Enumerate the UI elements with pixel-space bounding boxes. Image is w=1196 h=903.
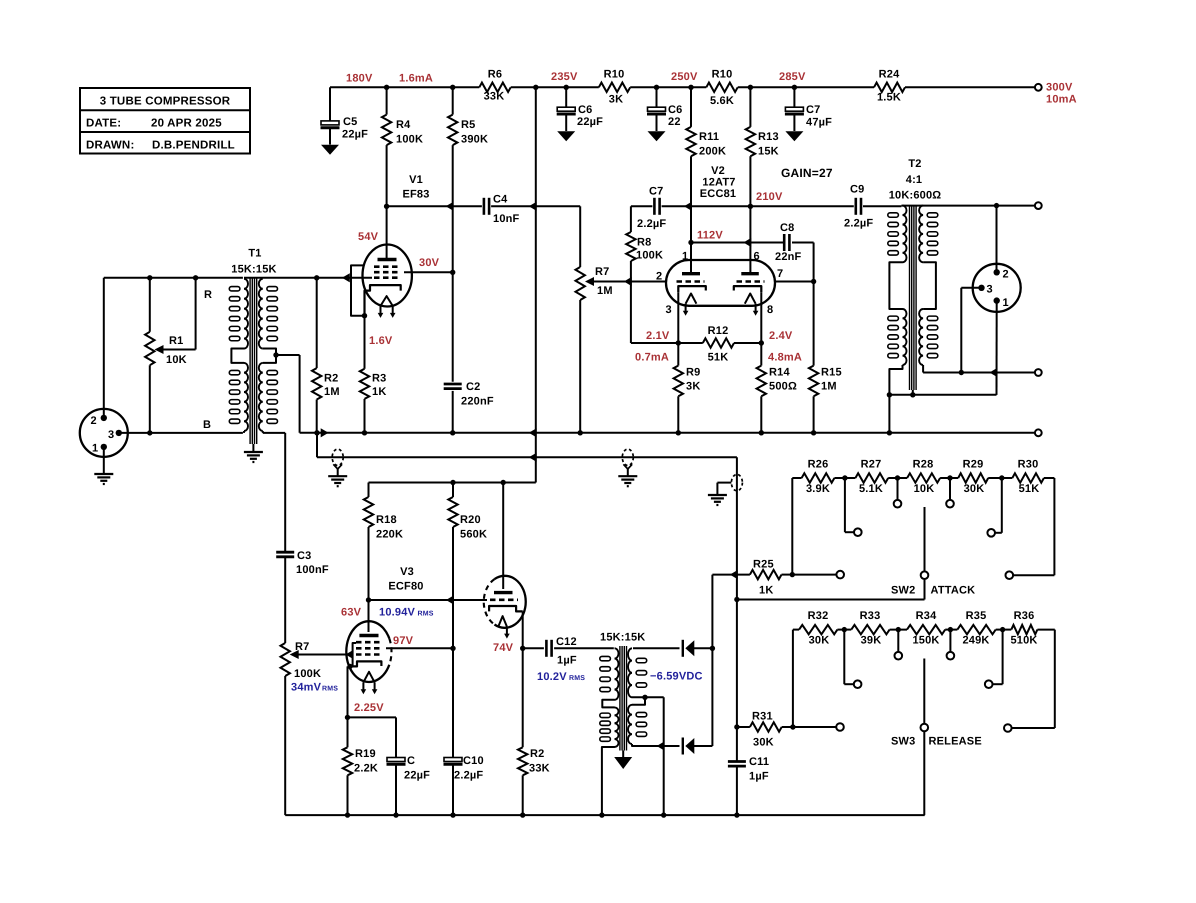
- capacitor C5: [321, 87, 340, 155]
- junction screen-R5: [450, 270, 455, 275]
- crossover tap-D2line: [657, 741, 665, 750]
- svg-text:100nF: 100nF: [296, 564, 329, 576]
- svg-text:R11: R11: [699, 131, 719, 143]
- crossover at 180V drop: [529, 202, 537, 211]
- svg-text:R15: R15: [821, 367, 842, 379]
- resistor R32: [799, 625, 837, 634]
- svg-text:1µF: 1µF: [557, 655, 577, 667]
- label 4.8mA: [768, 352, 802, 364]
- svg-text:R30: R30: [1018, 459, 1039, 471]
- svg-text:300V: 300V: [1046, 82, 1073, 94]
- svg-text:2.2K: 2.2K: [354, 763, 378, 775]
- svg-text:220K: 220K: [376, 529, 403, 541]
- svg-text:7: 7: [777, 268, 783, 280]
- svg-text:C3: C3: [297, 550, 311, 562]
- svg-text:12AT7: 12AT7: [702, 177, 735, 189]
- junction R26-R27: [842, 475, 847, 480]
- svg-text:1K: 1K: [759, 585, 773, 597]
- svg-text:−6.59VDC: −6.59VDC: [650, 671, 703, 683]
- svg-text:1M: 1M: [597, 285, 613, 297]
- crossover at V1 bracket: [342, 273, 350, 282]
- svg-text:3.9K: 3.9K: [806, 483, 830, 495]
- svg-text:47µF: 47µF: [806, 117, 832, 129]
- svg-text:EF83: EF83: [402, 189, 429, 201]
- wire grid V2a: [628, 281, 666, 283]
- svg-text:22: 22: [668, 116, 681, 128]
- wire second bus drop: [736, 457, 738, 599]
- capacitor C7 2.2uF: [654, 198, 659, 215]
- junction R1 wiper top: [193, 275, 198, 280]
- svg-text:R6: R6: [488, 69, 502, 81]
- wire V2 left cathode lead: [677, 292, 679, 343]
- junction bbus-R2b: [520, 812, 525, 817]
- label R2 1M: [324, 373, 340, 399]
- junction bus-C2: [450, 430, 455, 435]
- tube V3a heater: [361, 672, 378, 695]
- label V1 EF83: [402, 174, 429, 201]
- svg-text:R3: R3: [372, 373, 386, 385]
- svg-text:1: 1: [92, 443, 98, 455]
- svg-text:150K: 150K: [912, 635, 939, 647]
- label R33 39K: [860, 610, 882, 647]
- svg-text:10nF: 10nF: [493, 213, 520, 225]
- resistor R30: [1012, 473, 1044, 482]
- junction 210V-pin6: [748, 204, 753, 209]
- junction R34-R35: [948, 627, 953, 632]
- label 300V 10mA: [1046, 82, 1077, 106]
- label SW3 RELEASE: [891, 736, 982, 748]
- label C6 22: [668, 104, 682, 128]
- switch contact SW2-6: [1006, 571, 1014, 579]
- label R14 500ohm: [769, 367, 797, 393]
- junction rail-C6a: [564, 85, 569, 90]
- resistor R2b: [518, 747, 527, 815]
- wire C2 to bus: [452, 391, 454, 433]
- junction drop-SW2line: [734, 597, 739, 602]
- svg-text:T1: T1: [248, 248, 261, 260]
- junction V3a plate: [366, 597, 371, 602]
- wire drop SW2-2: [834, 478, 855, 532]
- svg-text:100K: 100K: [396, 134, 423, 146]
- svg-text:15K: 15K: [758, 146, 779, 158]
- capacitor C7 47uF: [785, 87, 804, 141]
- junction bus-R3: [362, 430, 367, 435]
- label 97V: [393, 635, 414, 647]
- junction pin7-R15: [811, 279, 816, 284]
- svg-text:249K: 249K: [962, 635, 989, 647]
- junction cathode-R19: [345, 715, 350, 720]
- terminal 300V output: [1035, 84, 1042, 91]
- wire 210V plate line: [631, 205, 902, 207]
- svg-text:22µF: 22µF: [404, 770, 430, 782]
- svg-text:1µF: 1µF: [749, 771, 769, 783]
- svg-text:100K: 100K: [636, 250, 663, 262]
- wire V1 anode: [386, 206, 388, 258]
- junction R29-R30: [999, 475, 1004, 480]
- wire 30V screen: [404, 271, 453, 273]
- svg-text:235V: 235V: [551, 71, 578, 83]
- label T3 15K:15K: [600, 632, 645, 644]
- tube V2 right cathode: [734, 286, 762, 292]
- resistor R20: [448, 483, 457, 649]
- svg-text:51K: 51K: [1019, 483, 1040, 495]
- svg-text:560K: 560K: [460, 529, 487, 541]
- wire main ground bus: [317, 432, 1035, 434]
- svg-text:R36: R36: [1014, 610, 1035, 622]
- svg-text:1K: 1K: [372, 386, 386, 398]
- svg-text:2: 2: [91, 415, 97, 427]
- wire V3a g3 bracket: [353, 643, 356, 666]
- label 10.94Vrms: [379, 607, 434, 619]
- tube V3b heater: [498, 616, 509, 639]
- wire pin3 lead: [961, 288, 981, 373]
- svg-text:SW3: SW3: [891, 736, 915, 748]
- junction cathode8: [759, 340, 764, 345]
- capacitor C6b: [647, 87, 666, 141]
- junction bbus-C: [393, 812, 398, 817]
- svg-text:V1: V1: [409, 174, 423, 186]
- label R32 30K: [808, 610, 830, 647]
- resistor R28: [907, 473, 940, 482]
- resistor R5: [448, 87, 457, 272]
- label SW2 ATTACK: [891, 585, 975, 597]
- svg-text:1: 1: [1003, 297, 1009, 309]
- label pin 2: [656, 271, 662, 283]
- label R6 33K: [484, 69, 505, 103]
- label R30 51K: [1018, 459, 1040, 496]
- resistor R34: [907, 625, 945, 634]
- label R15 1M: [821, 367, 842, 393]
- wire bus left segment: [119, 432, 243, 434]
- tube V2 left plate: [682, 272, 700, 275]
- tube V3b cathode: [489, 606, 523, 611]
- svg-text:30K: 30K: [964, 483, 985, 495]
- svg-text:3K: 3K: [686, 381, 700, 393]
- junction bbus-C11: [734, 812, 739, 817]
- resistor R9: [674, 343, 683, 433]
- junction R32-R33: [842, 627, 847, 632]
- label pin 6: [754, 251, 760, 263]
- junction T1 tap: [273, 352, 278, 357]
- label R8 100K: [636, 237, 663, 262]
- junction R31 left: [734, 724, 739, 729]
- wire C12 to T3: [554, 647, 614, 649]
- svg-text:10.94V: 10.94V: [379, 607, 416, 619]
- label R9 3K: [686, 367, 700, 393]
- svg-text:2.1V: 2.1V: [646, 330, 670, 342]
- capacitor C12: [546, 640, 551, 657]
- svg-text:2.2µF: 2.2µF: [454, 770, 483, 782]
- ground tap B: [618, 449, 637, 486]
- junction rail-C7b: [792, 85, 797, 90]
- svg-text:V2: V2: [711, 165, 725, 177]
- svg-text:R7: R7: [295, 641, 309, 653]
- label B: [203, 419, 211, 431]
- wire V3b plate lead: [502, 483, 504, 590]
- junction bbus-C10: [450, 812, 455, 817]
- label R31 30K: [752, 711, 774, 749]
- svg-text:10K: 10K: [166, 354, 187, 366]
- label R2 33K: [529, 748, 550, 775]
- label R28 10K: [913, 459, 935, 496]
- resistor R4: [382, 87, 391, 206]
- wire 2.25V line: [348, 717, 397, 757]
- crossover bus-180Vdrop: [529, 428, 537, 437]
- label pin 7: [777, 268, 783, 280]
- svg-text:30V: 30V: [419, 257, 440, 269]
- label R3 1K: [372, 373, 386, 399]
- junction rail-535: [533, 85, 538, 90]
- label R1 10K: [166, 335, 187, 366]
- junction bus-tap: [314, 428, 328, 437]
- label C7 2.2uF: [637, 186, 666, 231]
- svg-text:2.4V: 2.4V: [769, 330, 793, 342]
- label C7 47uF: [806, 104, 832, 129]
- wire grid line V1: [244, 277, 372, 279]
- transformer T1 core: [250, 278, 257, 444]
- wire pin7 line: [775, 281, 814, 283]
- transformer T3 secondary: [628, 648, 663, 746]
- label R4 100K: [396, 119, 423, 146]
- node 180V label: [346, 73, 373, 85]
- tube V2 right grid: [737, 280, 765, 283]
- svg-text:97V: 97V: [393, 635, 414, 647]
- junction R2 top: [314, 275, 319, 280]
- wire drop SW2-3: [888, 478, 907, 500]
- terminal output top: [1035, 202, 1042, 209]
- connector J1 input XLR: [80, 409, 128, 457]
- junction bbus-T3tap: [661, 812, 666, 817]
- label 30V: [419, 257, 440, 269]
- wire B+ rail: [330, 86, 1035, 88]
- junction T2top-pin2: [994, 203, 999, 208]
- junction bbus-R19: [345, 812, 350, 817]
- crossover at R5: [446, 202, 454, 211]
- resistor R35: [957, 625, 995, 634]
- svg-text:0.7mA: 0.7mA: [635, 352, 669, 364]
- transformer T1 secondary: [259, 279, 278, 433]
- svg-text:30K: 30K: [753, 737, 774, 749]
- svg-text:390K: 390K: [461, 134, 488, 146]
- svg-text:C5: C5: [343, 116, 357, 128]
- svg-text:4.8mA: 4.8mA: [768, 352, 802, 364]
- svg-text:2.2µF: 2.2µF: [844, 218, 873, 230]
- label pin 1: [682, 251, 688, 263]
- svg-text:D.B.PENDRILL: D.B.PENDRILL: [152, 140, 235, 152]
- resistor R10a: [599, 83, 630, 92]
- svg-text:ECC81: ECC81: [700, 188, 736, 200]
- wire R36 end drop: [1012, 630, 1055, 728]
- wire pin1 lead: [996, 301, 998, 395]
- wire drop SW3-5: [993, 630, 1012, 685]
- wire shield line: [889, 375, 996, 395]
- crossover drop-R25: [730, 570, 738, 579]
- svg-text:C2: C2: [466, 381, 480, 393]
- title block frame: [80, 88, 250, 154]
- crossover pin1-secline: [990, 368, 998, 377]
- label 74V: [493, 642, 514, 654]
- svg-text:1M: 1M: [821, 381, 837, 393]
- transformer T2 secondary: [919, 206, 938, 373]
- resistor R11: [686, 87, 695, 206]
- label R: [204, 289, 212, 301]
- wire V3a cathode down: [347, 666, 349, 717]
- switch contact SW3-2: [854, 680, 862, 688]
- capacitor C4: [484, 198, 489, 215]
- label R19 2.2K: [354, 748, 378, 775]
- title text: DATE 20 APR 2025: [86, 118, 222, 130]
- svg-text:R7: R7: [595, 266, 609, 278]
- svg-text:R26: R26: [808, 459, 829, 471]
- transformer T3 primary: [600, 648, 619, 815]
- svg-text:220nF: 220nF: [461, 396, 494, 408]
- svg-text:20 APR 2025: 20 APR 2025: [151, 118, 222, 130]
- junction pin1-112V: [688, 240, 693, 245]
- wire drop SW2-4: [940, 478, 958, 500]
- label R20 560K: [460, 514, 487, 541]
- svg-text:22µF: 22µF: [577, 116, 603, 128]
- svg-text:C7: C7: [649, 186, 663, 198]
- switch contact SW2-3: [894, 500, 902, 508]
- label C3 100nF: [296, 550, 329, 576]
- svg-text:R24: R24: [879, 69, 900, 81]
- junction plate line V3b: [501, 480, 506, 485]
- wire V3a anode lead: [368, 600, 370, 632]
- label pin 8: [767, 304, 773, 316]
- junction cathode3: [676, 340, 681, 345]
- svg-text:1.5K: 1.5K: [877, 92, 901, 104]
- svg-text:C7: C7: [806, 104, 820, 116]
- label R10 3K: [604, 69, 625, 106]
- label 210V: [756, 191, 783, 203]
- wire T2 top line: [901, 205, 1035, 207]
- label R34 150K: [912, 610, 939, 647]
- svg-text:C6: C6: [578, 104, 592, 116]
- junction 97V-C10: [450, 646, 455, 651]
- tube V3a cathode: [348, 661, 382, 666]
- svg-text:R2: R2: [530, 748, 544, 760]
- svg-text:R9: R9: [686, 367, 700, 379]
- wire V2 pin1 lead: [690, 206, 692, 272]
- resistor R10b: [706, 83, 737, 92]
- wire drop SW3-4: [945, 630, 957, 652]
- resistor R14: [757, 343, 766, 433]
- tube V1 grids: [374, 267, 401, 278]
- wire V3b cathode lead: [522, 611, 524, 648]
- wire pin2 lead: [996, 206, 998, 273]
- tube V3a envelope: [346, 621, 391, 682]
- switch contact SW3-5: [985, 680, 993, 688]
- svg-text:10K:600Ω: 10K:600Ω: [889, 190, 942, 202]
- junction bus-T2: [887, 430, 892, 435]
- label 2.4V: [769, 330, 793, 342]
- label -6.59VDC: [650, 671, 703, 683]
- wire drop to R31: [736, 600, 738, 728]
- wire R30 end drop: [1013, 478, 1054, 575]
- svg-text:R: R: [204, 289, 212, 301]
- svg-text:2: 2: [1003, 269, 1009, 281]
- switch contact SW3-4: [947, 652, 955, 660]
- ground T3 core arrow: [614, 751, 632, 770]
- label pin 3: [666, 304, 672, 316]
- resistor R19: [343, 717, 352, 815]
- junction R25-chain: [790, 572, 795, 577]
- svg-text:C4: C4: [493, 194, 508, 206]
- svg-text:R25: R25: [753, 559, 774, 571]
- label C11 1uF: [749, 756, 769, 783]
- junction V3a cathode: [347, 664, 352, 669]
- svg-text:R10: R10: [604, 69, 625, 81]
- pin 2 of J2: [994, 269, 1009, 281]
- wire drop SW3-3: [890, 630, 907, 652]
- capacitor C6a: [557, 87, 576, 141]
- pin 3 of J1: [108, 429, 122, 441]
- capacitor C3: [276, 552, 294, 557]
- svg-text:V3: V3: [400, 566, 414, 578]
- tube V2 left grid: [677, 280, 705, 283]
- svg-text:R18: R18: [376, 514, 397, 526]
- svg-text:R2: R2: [324, 373, 338, 385]
- transformer T1 primary: [229, 279, 248, 433]
- label R12 51K: [708, 325, 729, 364]
- svg-text:DATE:: DATE:: [86, 118, 121, 130]
- wire V3b grid line: [369, 599, 488, 601]
- junction R20 top: [450, 480, 455, 485]
- resistor R18: [364, 483, 373, 601]
- pin 2 of J1: [91, 415, 108, 427]
- transformer T2 primary: [888, 206, 907, 395]
- wire plate line V1: [387, 205, 581, 207]
- junction 74V: [520, 646, 525, 651]
- wire drop SW3-2: [837, 630, 853, 685]
- resistor R2: [312, 278, 321, 433]
- tube V1 cathode: [365, 285, 401, 316]
- junction bus-R15: [811, 430, 816, 435]
- capacitor C 22uF: [387, 758, 406, 816]
- svg-text:R14: R14: [769, 367, 790, 379]
- resistor R15: [809, 282, 818, 433]
- svg-text:30K: 30K: [809, 635, 830, 647]
- junction D1 out: [710, 646, 715, 651]
- wire T2 primary to bus: [888, 395, 890, 433]
- terminal bus right: [1035, 429, 1042, 436]
- capacitor C8: [784, 234, 789, 251]
- ground J1: [94, 447, 113, 484]
- wire R5 to C2: [452, 272, 454, 381]
- node 285V label: [779, 71, 806, 83]
- label R36 510K: [1010, 610, 1037, 647]
- svg-text:180V: 180V: [346, 73, 373, 85]
- svg-text:C12: C12: [556, 636, 577, 648]
- svg-text:10.2V: 10.2V: [537, 671, 567, 683]
- title text: DRAWN D.B.PENDRILL: [86, 140, 235, 152]
- title text: 3 TUBE COMPRESSOR: [100, 96, 231, 108]
- junction R31-chain: [790, 724, 795, 729]
- wire V2 right cathode lead: [760, 292, 762, 343]
- capacitor C9: [856, 198, 861, 215]
- label 54V: [358, 231, 379, 243]
- crossover 112V-pin6: [743, 238, 751, 247]
- label C10 2.2uF: [454, 755, 484, 782]
- label C9 2.2uF: [844, 184, 873, 230]
- junction bus-R7pot: [578, 430, 583, 435]
- junction R1 bottom: [147, 430, 152, 435]
- svg-text:1.6mA: 1.6mA: [399, 73, 433, 85]
- label R26 3.9K: [806, 459, 830, 496]
- label C4 10nF: [493, 194, 520, 226]
- junction rail-R4: [384, 85, 389, 90]
- wire D2 line: [663, 745, 680, 747]
